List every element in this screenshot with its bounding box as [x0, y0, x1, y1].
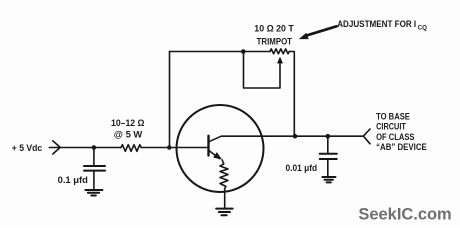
svg-text:@ 5 W: @ 5 W — [114, 129, 143, 139]
svg-text:SeekIC.com: SeekIC.com — [358, 206, 451, 224]
svg-text:CQ: CQ — [418, 24, 427, 31]
svg-text:0.01 μfd: 0.01 μfd — [286, 163, 318, 173]
svg-text:0.1 μfd: 0.1 μfd — [58, 175, 88, 185]
svg-text:10 Ω 20 T: 10 Ω 20 T — [254, 24, 294, 34]
svg-text:+ 5 Vdc: + 5 Vdc — [12, 143, 42, 153]
svg-text:TRIMPOT: TRIMPOT — [257, 36, 293, 46]
svg-text:10–12 Ω: 10–12 Ω — [111, 118, 145, 128]
svg-text:OF CLASS: OF CLASS — [376, 132, 414, 142]
svg-text:CIRCUIT: CIRCUIT — [376, 122, 406, 132]
svg-text:“AB” DEVICE: “AB” DEVICE — [376, 142, 427, 152]
svg-text:ADJUSTMENT FOR I: ADJUSTMENT FOR I — [337, 19, 416, 29]
svg-text:TO BASE: TO BASE — [376, 111, 410, 121]
